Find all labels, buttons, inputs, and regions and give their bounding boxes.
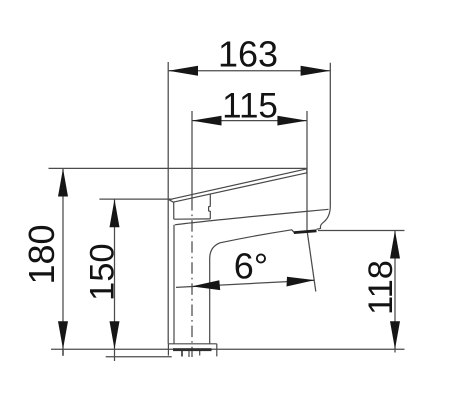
svg-text:118: 118 xyxy=(362,260,400,315)
svg-text:115: 115 xyxy=(222,87,278,126)
svg-text:163: 163 xyxy=(218,33,278,74)
svg-text:180: 180 xyxy=(21,224,62,284)
svg-text:150: 150 xyxy=(83,243,121,301)
svg-text:6°: 6° xyxy=(234,246,268,287)
